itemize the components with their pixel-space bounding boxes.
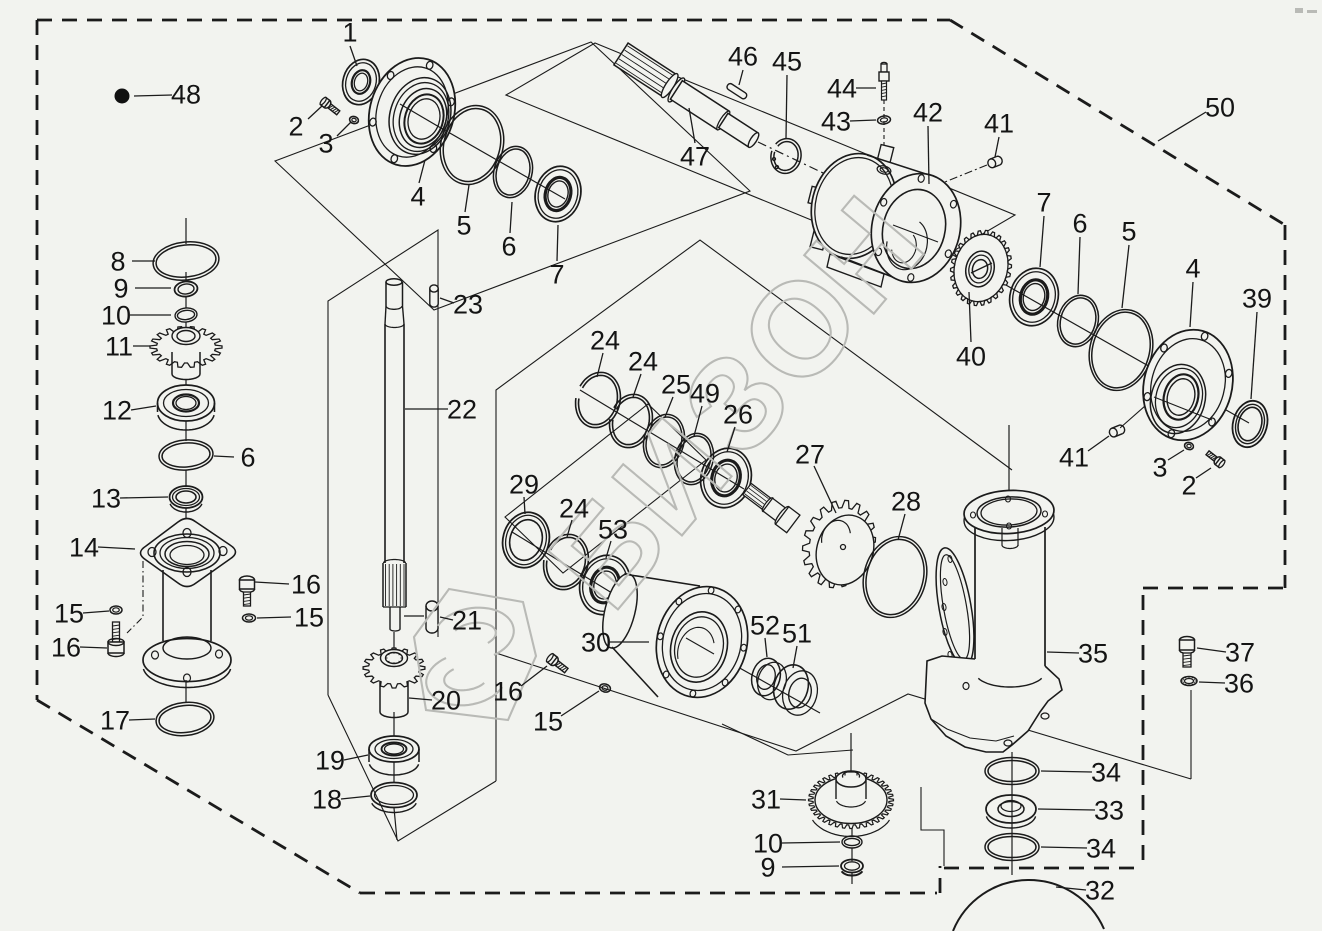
dashed border inner horizontal	[1143, 587, 1285, 590]
svg-text:8: 8	[110, 247, 125, 277]
svg-text:6: 6	[501, 232, 516, 262]
svg-text:18: 18	[312, 785, 342, 815]
panel central cluster	[496, 240, 1012, 781]
washer 15 (left)	[110, 606, 122, 614]
snap ring 24 (third)	[544, 534, 589, 589]
nut 3	[349, 115, 360, 124]
pin 41 (right)	[1108, 424, 1126, 438]
svg-text:17: 17	[100, 706, 130, 736]
spur gear 31	[809, 772, 894, 829]
lock washer 36	[1181, 677, 1197, 686]
svg-text:35: 35	[1078, 639, 1108, 669]
bearing 7	[529, 161, 587, 227]
axis grease-44 dashed	[883, 100, 885, 162]
svg-text:24: 24	[559, 494, 589, 524]
bushing 52	[748, 655, 785, 699]
svg-text:28: 28	[891, 487, 921, 517]
dashed border bottom-right	[944, 867, 1143, 870]
gear 40	[951, 230, 1012, 305]
svg-text:16: 16	[51, 633, 81, 663]
bolt 16 (at 30)	[545, 653, 569, 675]
ring 10	[174, 307, 197, 323]
svg-text:41: 41	[1059, 443, 1089, 473]
axis line rings 29-30	[512, 532, 630, 604]
seal 13	[170, 486, 203, 508]
bearing 7 (right)	[1003, 263, 1064, 331]
bearing 19	[369, 736, 419, 762]
svg-text:27: 27	[795, 440, 825, 470]
o-ring 34 (upper)	[985, 758, 1039, 785]
svg-text:3: 3	[1152, 453, 1167, 483]
axis tower rings	[1011, 752, 1013, 875]
svg-text:9: 9	[113, 274, 128, 304]
panel seal-29 group	[505, 404, 706, 573]
lock ring 9 (at 31)	[841, 860, 863, 873]
svg-text:16: 16	[493, 677, 523, 707]
axis gear31 stack	[850, 733, 852, 772]
part number labels	[350, 46, 357, 66]
pin 23	[430, 285, 439, 307]
svg-text:31: 31	[751, 785, 781, 815]
gear housing 42	[877, 145, 893, 164]
svg-text:46: 46	[728, 42, 758, 72]
svg-text:47: 47	[680, 142, 710, 172]
panel top-left group	[275, 42, 750, 310]
svg-text:40: 40	[956, 342, 986, 372]
svg-text:45: 45	[772, 47, 802, 77]
bolt 37	[1180, 637, 1195, 644]
svg-text:53: 53	[598, 515, 628, 545]
svg-text:34: 34	[1086, 834, 1116, 864]
svg-text:14: 14	[69, 533, 99, 563]
svg-text:33: 33	[1094, 796, 1124, 826]
o-ring 5	[432, 98, 513, 191]
svg-text:23: 23	[453, 290, 483, 320]
dashed border inner vertical	[1142, 588, 1145, 860]
washer 15 (at 30)	[599, 683, 612, 694]
snap ring 24 (second)	[610, 394, 653, 447]
bevel gear 27	[803, 500, 876, 587]
o-ring 5 (right)	[1080, 302, 1161, 397]
svg-text:41: 41	[984, 109, 1014, 139]
svg-text:20: 20	[431, 686, 461, 716]
axis left stack	[185, 218, 187, 244]
pin 21	[426, 601, 438, 633]
svg-text:21: 21	[452, 606, 482, 636]
o-ring 34 (lower)	[985, 834, 1039, 861]
svg-text:51: 51	[782, 619, 812, 649]
o-ring 17	[154, 700, 215, 739]
bolt 2 (right)	[1205, 449, 1226, 468]
bushing 51	[769, 661, 813, 713]
svg-text:22: 22	[447, 395, 477, 425]
flange housing 4 (right)	[1131, 320, 1245, 451]
support tower 35	[929, 545, 981, 669]
dashed border step	[939, 866, 942, 893]
bearing 53	[573, 550, 637, 621]
axis line top-left row	[352, 77, 565, 199]
svg-text:43: 43	[821, 107, 851, 137]
svg-text:19: 19	[315, 746, 345, 776]
ring 9	[174, 280, 198, 297]
pinion shaft 27	[740, 480, 800, 532]
svg-text:4: 4	[1185, 254, 1200, 284]
bearing 12	[158, 385, 215, 421]
svg-text:2: 2	[288, 112, 303, 142]
ring 25	[638, 410, 691, 473]
svg-text:37: 37	[1225, 638, 1255, 668]
panel center shaft-22 column	[328, 230, 438, 695]
axis dashdot shaft47 to housing	[758, 142, 842, 182]
bearing 1	[337, 55, 384, 109]
svg-text:12: 12	[102, 396, 132, 426]
set screw 41 (top)	[987, 155, 1004, 169]
bell housing 30	[610, 575, 702, 699]
svg-text:50: 50	[1205, 93, 1235, 123]
svg-text:36: 36	[1224, 669, 1254, 699]
svg-text:4: 4	[410, 182, 425, 212]
panel shaft-47 group	[506, 43, 1015, 267]
axis dashdot flange14	[127, 561, 143, 633]
panel gear-31 leader	[722, 724, 853, 755]
svg-text:6: 6	[1072, 209, 1087, 239]
svg-text:29: 29	[509, 470, 539, 500]
dashed border bottom	[360, 892, 937, 895]
axis pin21 line	[404, 615, 424, 617]
dashed border left	[36, 20, 39, 700]
svg-text:48: 48	[171, 80, 201, 110]
axis line row 40-39	[895, 222, 1249, 423]
dashed border right	[1284, 225, 1287, 588]
svg-text:5: 5	[1121, 217, 1136, 247]
svg-text:30: 30	[581, 628, 611, 658]
svg-text:44: 44	[827, 74, 857, 104]
panel bottom-right steps	[921, 787, 944, 866]
svg-text:26: 26	[723, 400, 753, 430]
shaft 22	[386, 279, 402, 286]
seal 29	[497, 507, 556, 573]
svg-text:32: 32	[1085, 876, 1115, 906]
dashed border top	[37, 19, 950, 22]
svg-text:7: 7	[1036, 188, 1051, 218]
bullet 48	[115, 89, 130, 104]
snap ring 24 (first)	[576, 372, 621, 427]
svg-text:42: 42	[913, 98, 943, 128]
bevel gear 11	[150, 327, 222, 368]
corner mark	[1295, 8, 1303, 13]
snap ring 45	[771, 139, 801, 174]
o-ring 28	[854, 529, 935, 624]
flange housing 4 (left)	[356, 47, 468, 177]
svg-text:13: 13	[91, 484, 121, 514]
svg-text:16: 16	[291, 570, 321, 600]
svg-text:10: 10	[101, 301, 131, 331]
nut 43	[877, 115, 891, 125]
svg-text:3: 3	[318, 129, 333, 159]
svg-text:25: 25	[661, 370, 691, 400]
bolt 16 (left)	[113, 622, 120, 642]
axis in flange 4b bore	[1154, 397, 1212, 420]
axis stack 20-18	[393, 632, 395, 648]
key 46	[726, 82, 748, 99]
svg-text:11: 11	[105, 332, 133, 362]
axis dashdot 41a	[935, 165, 987, 186]
ring 6 (right)	[1052, 291, 1104, 352]
svg-text:1: 1	[342, 18, 357, 48]
watermark logo and text	[414, 171, 951, 720]
bolt 16 (mid)	[240, 576, 255, 584]
svg-text:15: 15	[533, 707, 563, 737]
svg-text:24: 24	[590, 326, 620, 356]
svg-text:6: 6	[240, 443, 255, 473]
bearing 26	[694, 443, 758, 514]
svg-text:39: 39	[1242, 284, 1272, 314]
axis line rings 24-27	[580, 390, 744, 489]
collar 33	[986, 795, 1036, 823]
svg-text:2: 2	[1181, 471, 1196, 501]
seal 18	[371, 783, 417, 808]
svg-text:7: 7	[549, 260, 564, 290]
dashed border bottom-left diagonal	[37, 700, 360, 893]
axis tower top leader	[1008, 425, 1010, 500]
ring 10 (at 31)	[842, 836, 862, 848]
svg-text:34: 34	[1091, 758, 1121, 788]
axis pin 41b line	[1120, 391, 1162, 428]
splined shaft 47	[613, 42, 763, 153]
bevel gear 20	[363, 648, 425, 688]
svg-text:15: 15	[54, 599, 84, 629]
ring 6	[488, 142, 538, 202]
svg-text:9: 9	[760, 853, 775, 883]
washer 15 (mid)	[243, 614, 256, 622]
flange tube 14	[141, 519, 236, 587]
axis in flange 4 bore	[400, 104, 446, 131]
svg-text:5: 5	[456, 211, 471, 241]
bolt 2	[319, 96, 341, 116]
ring 49	[669, 429, 719, 489]
svg-text:49: 49	[690, 379, 720, 409]
grease fitting 44	[881, 62, 887, 65]
svg-text:24: 24	[628, 347, 658, 377]
dashed border top-right diagonal	[950, 20, 1285, 225]
seal 39	[1227, 397, 1272, 451]
nut 3 (right)	[1184, 441, 1195, 450]
disc arc 32	[953, 880, 1104, 931]
svg-text:15: 15	[294, 603, 324, 633]
o-ring 8	[151, 239, 221, 284]
seal 6 (left stack)	[158, 438, 214, 472]
svg-text:52: 52	[750, 611, 780, 641]
